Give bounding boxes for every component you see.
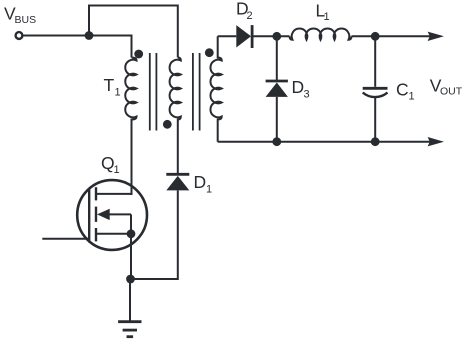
Q1 source bar	[96, 233, 131, 235]
label C1	[396, 80, 415, 103]
wire D2 to L1	[252, 35, 289, 37]
label L1	[316, 0, 330, 23]
node D3 top junction dot	[272, 32, 281, 41]
transformer T1 secondary winding	[210, 36, 221, 141]
Q1 body-source vertical	[130, 214, 132, 233]
polarity dot reset winding	[163, 120, 172, 129]
svg-text:2: 2	[247, 10, 253, 22]
wire D1 to source junction	[131, 190, 178, 279]
wire L1 to top arrow	[352, 35, 431, 37]
Q1 channel dashes	[95, 187, 97, 200]
Q1 gate bar	[88, 188, 90, 242]
Q1 body line with arrow	[104, 213, 131, 215]
svg-text:OUT: OUT	[440, 86, 463, 98]
wire C1 to bottom rail	[374, 98, 376, 142]
svg-text:T: T	[104, 75, 115, 95]
svg-text:1: 1	[324, 11, 330, 23]
transformer core lines	[149, 53, 151, 131]
svg-text:1: 1	[409, 91, 415, 103]
diode D3	[266, 81, 288, 97]
top output arrow	[428, 32, 444, 41]
terminal VBUS	[16, 32, 23, 39]
polarity dot primary	[134, 50, 143, 59]
label D3	[292, 77, 310, 101]
svg-text:D: D	[292, 77, 305, 97]
bottom rail	[218, 141, 430, 143]
transformer T1 primary winding	[125, 58, 136, 196]
MOSFET Q1 circle	[77, 180, 147, 250]
wire D3 to bottom rail	[276, 97, 278, 142]
node C1 bottom junction dot	[371, 137, 380, 146]
label VBUS	[4, 4, 36, 27]
label D1	[194, 172, 213, 196]
wire VBUS to node A	[23, 35, 89, 37]
wire source to ground	[130, 234, 132, 280]
wire top rail to reset winding	[89, 6, 178, 58]
capacitor C1	[363, 88, 388, 97]
wire secondary top to D2	[218, 35, 237, 37]
svg-text:BUS: BUS	[15, 14, 37, 26]
bottom output arrow	[428, 137, 444, 146]
label VOUT	[430, 75, 463, 97]
label Q1	[101, 153, 120, 176]
svg-text:3: 3	[304, 89, 310, 101]
label T1	[104, 75, 121, 99]
ground	[118, 322, 141, 337]
node A junction dot	[85, 31, 94, 40]
svg-text:C: C	[396, 80, 409, 100]
inductor L1	[290, 29, 352, 40]
polarity dot secondary	[205, 48, 214, 57]
svg-text:1: 1	[115, 87, 121, 99]
label D2	[236, 0, 253, 22]
svg-text:D: D	[194, 172, 207, 192]
wire node A to primary	[89, 36, 132, 58]
wire C1 branch	[374, 36, 376, 87]
diode D1	[166, 174, 189, 190]
wire D3 branch	[276, 36, 278, 81]
Q1 drain bar	[96, 193, 131, 195]
Q1 source junction dot	[127, 229, 136, 238]
node source-D1 junction dot	[126, 275, 135, 284]
diode D2	[236, 25, 252, 48]
node D3 bottom junction dot	[272, 137, 281, 146]
svg-text:1: 1	[114, 164, 120, 176]
Q1 gate lead	[42, 238, 90, 240]
svg-text:1: 1	[206, 184, 212, 196]
node C1 top junction dot	[371, 32, 380, 41]
transformer T1 reset winding	[170, 58, 181, 175]
